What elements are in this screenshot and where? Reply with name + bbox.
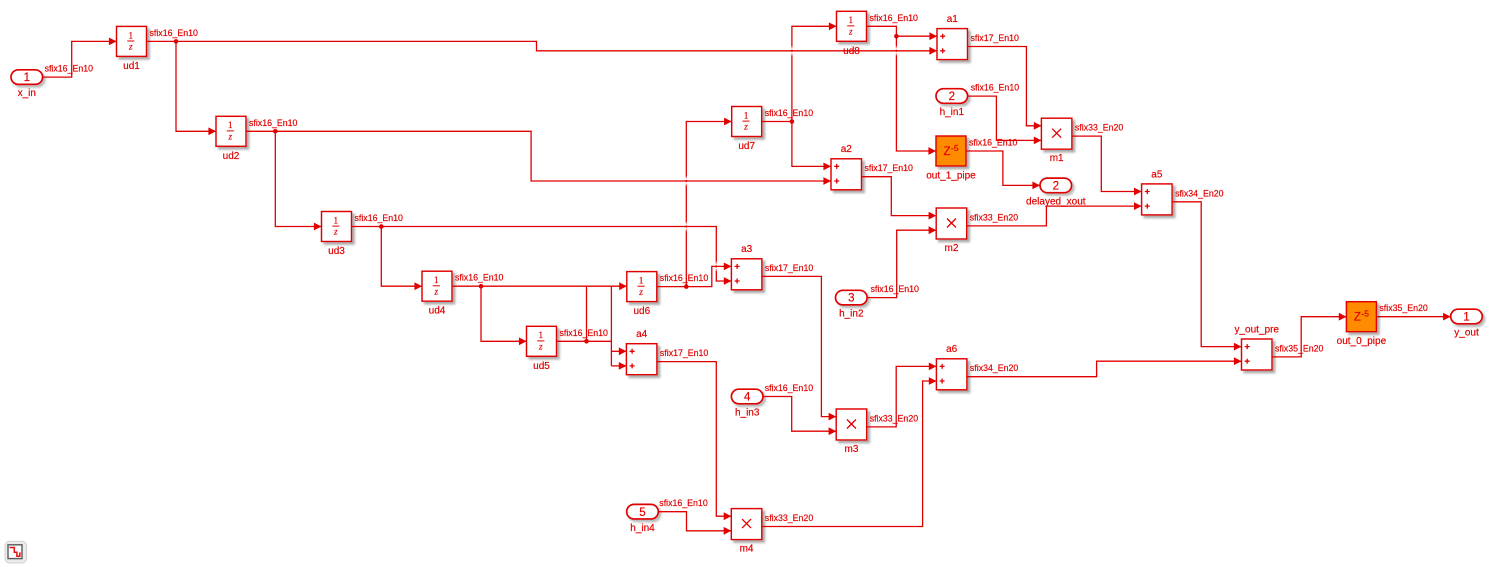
multiplier m4 xyxy=(731,509,762,555)
adder a4 xyxy=(626,329,657,375)
wire m3 to a6 upper xyxy=(867,363,937,427)
wire ud3 to ud4 xyxy=(381,227,422,291)
svg-text:z: z xyxy=(638,287,643,297)
adder a6 xyxy=(936,344,967,390)
wire ud1 to ud2 xyxy=(176,41,216,135)
svg-text:1: 1 xyxy=(334,215,339,225)
wire h_in4 to m4 lower xyxy=(658,512,731,535)
svg-text:a3: a3 xyxy=(741,244,753,255)
wire a5 to y_out_pre upper xyxy=(1172,202,1241,351)
svg-text:a5: a5 xyxy=(1151,169,1163,180)
svg-text:out_1_pipe: out_1_pipe xyxy=(926,171,976,182)
svg-text:sfix16_En10: sfix16_En10 xyxy=(150,28,199,38)
wire ud5 output xyxy=(557,339,612,344)
svg-text:2: 2 xyxy=(949,91,955,103)
svg-text:1: 1 xyxy=(539,330,544,340)
svg-text:z: z xyxy=(333,227,338,237)
svg-text:sfix16_En10: sfix16_En10 xyxy=(971,83,1020,93)
line-hop gap at crossing (896.4,50.8) xyxy=(895,45,897,56)
wire ud8 to a1 upper xyxy=(867,26,938,40)
svg-text:ud3: ud3 xyxy=(328,246,345,257)
wire ud5 branch up xyxy=(586,286,588,341)
wire ud4 to ud5 xyxy=(481,286,527,345)
svg-text:z: z xyxy=(434,286,439,296)
unit delay ud7 xyxy=(732,107,762,153)
svg-text:3: 3 xyxy=(848,293,854,305)
svg-text:z: z xyxy=(228,132,233,142)
unit delay ud4 xyxy=(422,271,452,317)
multiplier m1 xyxy=(1041,118,1072,164)
delay block out_0_pipe (Z^-5) xyxy=(1337,302,1387,348)
svg-text:x_in: x_in xyxy=(18,88,36,99)
wire m2 to a5 lower xyxy=(967,202,1142,226)
svg-text:-5: -5 xyxy=(1361,309,1369,319)
junction ud8 branch xyxy=(894,34,899,39)
wire m1 to a5 upper xyxy=(1072,136,1142,195)
svg-text:sfix16_En10: sfix16_En10 xyxy=(871,284,920,294)
svg-text:sfix17_En10: sfix17_En10 xyxy=(660,348,709,358)
line-hop gap at crossing (686.3,226.5) xyxy=(685,221,687,232)
svg-text:ud5: ud5 xyxy=(533,361,550,372)
svg-text:sfix35_En20: sfix35_En20 xyxy=(1379,303,1428,313)
svg-text:Z: Z xyxy=(944,146,951,158)
wire to a4 upper xyxy=(611,347,626,355)
svg-text:y_out_pre: y_out_pre xyxy=(1235,324,1280,335)
unit delay ud1 xyxy=(117,26,147,72)
wire a6 to y_out_pre lower xyxy=(967,357,1242,376)
svg-text:-5: -5 xyxy=(951,143,959,153)
wire h_in1 to m1 lower xyxy=(968,96,1042,144)
wire x_in to ud1 xyxy=(43,38,117,78)
svg-text:ud2: ud2 xyxy=(223,151,240,162)
svg-text:y_out: y_out xyxy=(1454,328,1479,339)
svg-text:out_0_pipe: out_0_pipe xyxy=(1337,336,1387,347)
unit delay ud8 xyxy=(837,11,867,57)
adder a2 xyxy=(831,144,862,190)
wire a4 to m4 upper xyxy=(657,362,731,520)
svg-text:m2: m2 xyxy=(944,243,958,254)
svg-text:z: z xyxy=(743,122,748,132)
svg-text:Z: Z xyxy=(1354,312,1361,324)
wire out_1_pipe to delayed_xout xyxy=(966,151,1040,189)
svg-text:ud1: ud1 xyxy=(123,61,140,72)
wire ud2 to a2 lower (long) xyxy=(275,131,831,185)
unit delay ud6 xyxy=(627,272,657,318)
svg-text:sfix33_En20: sfix33_En20 xyxy=(1075,123,1124,133)
wire ud3 output xyxy=(352,224,384,229)
port h_in2 (3) xyxy=(836,290,868,319)
adder a5 xyxy=(1142,169,1173,215)
wire a2 to m2 upper xyxy=(862,177,937,220)
svg-text:z: z xyxy=(848,27,853,37)
svg-text:sfix17_En10: sfix17_En10 xyxy=(971,33,1020,43)
svg-text:m1: m1 xyxy=(1050,153,1064,164)
wire ud6 output xyxy=(657,284,689,289)
svg-text:h_in4: h_in4 xyxy=(630,523,655,534)
svg-text:m4: m4 xyxy=(740,543,754,554)
adder y_out_pre xyxy=(1235,324,1280,370)
wire y_out_pre to out_0_pipe xyxy=(1272,313,1346,357)
wire ud1 output xyxy=(147,39,179,44)
wire ud7 output xyxy=(762,119,795,124)
svg-text:1: 1 xyxy=(1463,312,1469,324)
wire a1 to m1 upper xyxy=(968,47,1042,130)
svg-text:sfix16_En10: sfix16_En10 xyxy=(660,273,709,283)
adder a3 xyxy=(731,244,762,290)
svg-text:a2: a2 xyxy=(841,144,853,155)
svg-text:sfix16_En10: sfix16_En10 xyxy=(249,118,298,128)
line-hop gap at crossing (791.9,50.8) xyxy=(791,45,793,56)
svg-text:a4: a4 xyxy=(636,329,648,340)
wire ud6 to a3 upper xyxy=(686,263,731,287)
line-hop gap at crossing (686.3,181.0) xyxy=(685,176,687,187)
wire ud6 to ud7 xyxy=(686,118,731,287)
wire h_in2 to m2 lower xyxy=(867,226,936,297)
delay block out_1_pipe (Z^-5) xyxy=(926,136,976,182)
svg-text:z: z xyxy=(538,342,543,352)
wire a3 to m3 upper xyxy=(762,276,836,420)
svg-text:sfix16_En10: sfix16_En10 xyxy=(560,328,609,338)
port h_in3 (4) xyxy=(731,389,763,418)
unit delay ud2 xyxy=(216,116,246,162)
svg-text:sfix17_En10: sfix17_En10 xyxy=(765,263,814,273)
svg-text:1: 1 xyxy=(24,72,30,84)
svg-text:a1: a1 xyxy=(947,14,959,25)
svg-text:sfix33_En20: sfix33_En20 xyxy=(970,212,1019,222)
wire ud8 to out_1_pipe xyxy=(896,36,936,155)
svg-text:sfix16_En10: sfix16_En10 xyxy=(765,383,814,393)
svg-text:sfix17_En10: sfix17_En10 xyxy=(865,163,914,173)
svg-text:sfix34_En20: sfix34_En20 xyxy=(970,363,1019,373)
multiplier m2 xyxy=(936,208,967,254)
wire ud7 to ud8 xyxy=(792,22,837,121)
svg-text:sfix35_En20: sfix35_En20 xyxy=(1275,343,1324,353)
svg-text:sfix16_En10: sfix16_En10 xyxy=(455,273,504,283)
svg-text:1: 1 xyxy=(849,15,854,25)
svg-text:sfix16_En10: sfix16_En10 xyxy=(45,64,94,74)
svg-text:a6: a6 xyxy=(946,344,958,355)
port delayed_xout (2) xyxy=(1026,178,1086,207)
svg-text:sfix16_En10: sfix16_En10 xyxy=(765,108,814,118)
wire branch down to a4 xyxy=(610,286,612,366)
port h_in1 (2) xyxy=(936,89,968,118)
svg-text:sfix34_En20: sfix34_En20 xyxy=(1175,188,1224,198)
wire to a4 lower xyxy=(611,362,626,370)
wire ud4 to ud6 xyxy=(452,282,627,290)
wire ud7 to a2 upper xyxy=(792,122,831,171)
svg-text:sfix16_En10: sfix16_En10 xyxy=(969,138,1018,148)
svg-text:ud6: ud6 xyxy=(633,306,650,317)
line-hop gap at crossing (716.3,266.4) xyxy=(715,261,717,272)
svg-text:z: z xyxy=(128,42,133,52)
svg-text:2: 2 xyxy=(1053,181,1059,193)
svg-text:sfix16_En10: sfix16_En10 xyxy=(355,213,404,223)
wire h_in3 to m3 lower xyxy=(763,397,836,436)
wire ud2 output xyxy=(246,129,278,134)
svg-text:h_in1: h_in1 xyxy=(940,107,965,118)
svg-text:h_in2: h_in2 xyxy=(839,309,864,320)
wire ud3 to a3 lower xyxy=(381,227,731,285)
wire out_0_pipe to y_out xyxy=(1376,313,1450,321)
port h_in4 (5) xyxy=(627,504,659,533)
svg-text:1: 1 xyxy=(639,276,644,286)
svg-text:1: 1 xyxy=(129,30,134,40)
svg-text:ud4: ud4 xyxy=(429,306,446,317)
adder a1 xyxy=(937,14,968,60)
unit delay ud3 xyxy=(322,212,352,258)
svg-text:1: 1 xyxy=(434,275,439,285)
svg-text:1: 1 xyxy=(744,110,749,120)
svg-text:sfix33_En20: sfix33_En20 xyxy=(765,513,814,523)
svg-text:m3: m3 xyxy=(844,444,858,455)
svg-text:h_in3: h_in3 xyxy=(735,408,760,419)
svg-text:5: 5 xyxy=(639,507,645,519)
wire ud2 to ud3 xyxy=(275,131,321,230)
wire ud1 to a1 lower (long) xyxy=(176,41,937,54)
svg-text:sfix33_En20: sfix33_En20 xyxy=(870,413,919,423)
svg-text:1: 1 xyxy=(228,120,233,130)
svg-text:sfix16_En10: sfix16_En10 xyxy=(870,13,919,23)
port y_out (1) xyxy=(1451,309,1483,338)
svg-text:4: 4 xyxy=(744,392,751,404)
unit delay ud5 xyxy=(527,326,557,372)
multiplier m3 xyxy=(836,409,867,455)
sample-time legend badge (bottom-left) xyxy=(5,541,27,563)
svg-text:ud7: ud7 xyxy=(738,141,755,152)
svg-text:sfix16_En10: sfix16_En10 xyxy=(659,498,708,508)
port x_in (1) xyxy=(11,70,43,99)
wire m4 to a6 lower xyxy=(762,377,937,526)
